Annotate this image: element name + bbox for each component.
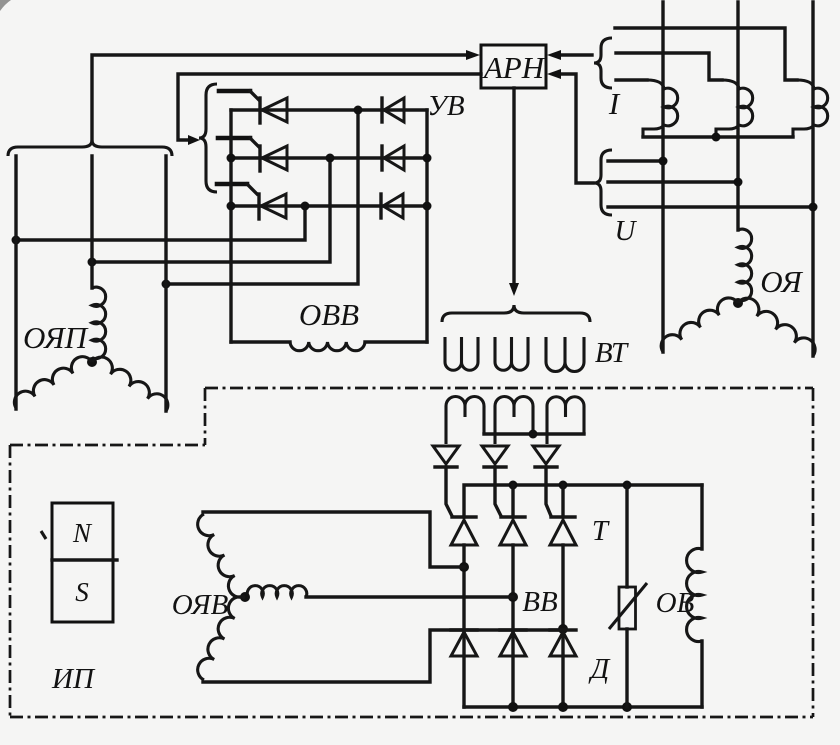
- brace over VT: [442, 305, 590, 322]
- wire OYAV phase 1: [203, 512, 464, 567]
- winding OYAP middle coil: [92, 287, 106, 358]
- diode VD2: [380, 146, 383, 170]
- thyristor T2: [501, 515, 525, 518]
- winding OYAP right arm: [92, 357, 168, 411]
- wire OYAV phase 3: [203, 630, 563, 682]
- wire from OYAP brace peak up and right to APH input: [92, 55, 466, 141]
- wire U line 1: [608, 159, 663, 162]
- winding VT secondary group 2: [495, 397, 533, 445]
- thyristor VS1 gate: [219, 89, 250, 94]
- wire VT1 to T1 gate: [446, 467, 452, 516]
- svg-text:АРН: АРН: [482, 50, 546, 85]
- node U2 on phase 2: [734, 178, 743, 187]
- wire row 3: [231, 204, 427, 207]
- diode VT3: [533, 446, 559, 464]
- svg-text:I: I: [608, 86, 621, 121]
- node bus T3: [559, 481, 568, 490]
- svg-text:S: S: [75, 577, 89, 607]
- wire U line 3: [608, 205, 813, 208]
- winding VT primary group 1: [445, 337, 478, 370]
- arrowhead down toward VT brace: [509, 283, 519, 296]
- diode D3: [550, 628, 576, 631]
- svg-text:U: U: [615, 215, 638, 247]
- arrowhead into APH right lower: [547, 69, 561, 79]
- CT1 winding: [643, 80, 678, 137]
- wire I line 1 to CT3: [615, 28, 797, 80]
- thyristor VS1: [258, 98, 261, 123]
- node leg2 phase: [508, 592, 518, 602]
- node bottom leg3: [558, 702, 568, 712]
- diode VT2: [482, 446, 508, 464]
- winding OYAV middle coil: [247, 586, 307, 597]
- wire staircase tap2 to row2: [92, 158, 330, 262]
- thyristor T1: [452, 515, 476, 518]
- wire leg 1: [462, 545, 465, 707]
- wire VT3 to T3 gate: [546, 467, 551, 516]
- wire row 1: [231, 108, 427, 111]
- dash-dot boundary left: [9, 445, 12, 717]
- winding OYA right arm: [738, 298, 815, 356]
- wire APH down to VT: [512, 88, 515, 283]
- wire VT2 to T2 gate: [495, 467, 501, 516]
- winding VT secondary group 3: [547, 397, 584, 444]
- dash-dot boundary top: [205, 387, 813, 390]
- brace I: [594, 38, 612, 88]
- node staircase row2: [326, 154, 335, 163]
- node bottom leg2: [508, 702, 518, 712]
- thyristor T3: [551, 515, 575, 518]
- wire negative bus: [464, 705, 702, 708]
- wire T3 cathode: [561, 485, 564, 517]
- CT2 winding: [716, 80, 753, 137]
- brace UV gates: [199, 84, 217, 192]
- varistor discharge resistor: [625, 485, 628, 707]
- wire staircase tap3 to row1: [166, 110, 358, 284]
- winding OVV: [290, 342, 365, 351]
- wire U line 2: [608, 180, 738, 183]
- wire leg 3: [561, 545, 564, 707]
- wire OYAP phase line left: [14, 156, 17, 409]
- node tap3 on OYAP line: [162, 280, 171, 289]
- wire leg 2: [511, 545, 514, 707]
- wire positive bus: [464, 485, 702, 517]
- node tap1 on OYAP line: [12, 236, 21, 245]
- wire T2 cathode: [511, 485, 514, 517]
- wire VT secondary star bus: [484, 432, 584, 435]
- node staircase row1: [354, 106, 363, 115]
- wire left column of UV down to OVV: [229, 110, 232, 342]
- node tap2 on OYAP line: [88, 258, 97, 267]
- generator phase line 1: [661, 2, 664, 352]
- node leg1 phase: [459, 562, 469, 572]
- winding OYAV upper arm: [198, 514, 245, 597]
- svg-text:ИП: ИП: [51, 663, 96, 695]
- winding OYA middle coil: [738, 229, 752, 300]
- svg-text:ОВВ: ОВВ: [299, 297, 359, 332]
- winding OYAV lower arm: [198, 597, 245, 680]
- svg-text:ОЯП: ОЯП: [23, 320, 89, 355]
- svg-text:ОЯВ: ОЯВ: [172, 589, 229, 621]
- wire staircase tap1 to row3: [16, 206, 305, 240]
- arrowhead into UV brace: [188, 135, 200, 145]
- node OYA star point: [733, 298, 743, 308]
- magnet N/S box: [52, 503, 113, 622]
- thyristor VS2: [258, 146, 261, 171]
- CT3 winding: [793, 80, 828, 137]
- wire I line 3 to CT1: [616, 78, 647, 81]
- scan corner artifact: [0, 0, 11, 11]
- thyristor VS3: [257, 194, 260, 219]
- wire APH output to UV gate brace: [178, 74, 481, 140]
- winding OYAP left arm: [14, 357, 92, 408]
- svg-text:ОЯ: ОЯ: [760, 264, 803, 299]
- node leg3 phase: [558, 624, 568, 634]
- svg-text:ВВ: ВВ: [522, 586, 558, 618]
- wire OVV loop: [231, 340, 427, 343]
- wire OYAP phase line right: [164, 156, 167, 411]
- diode VT1: [433, 446, 459, 464]
- wire row 2: [231, 156, 427, 159]
- node U1 on phase 1: [659, 157, 668, 166]
- node on left column row2: [227, 154, 236, 163]
- svg-text:N: N: [72, 518, 93, 548]
- node bus T2: [509, 481, 518, 490]
- node staircase row3: [301, 202, 310, 211]
- tick mark: [41, 531, 46, 539]
- dash-dot boundary bottom: [10, 716, 813, 719]
- generator phase line 3: [811, 2, 814, 356]
- node OYAV star: [240, 592, 250, 602]
- diode D2: [500, 628, 526, 631]
- diode VD1: [380, 98, 383, 122]
- dash-dot boundary step vertical: [204, 388, 207, 445]
- node bus varistor: [623, 481, 632, 490]
- arrowhead into APH right top: [547, 50, 561, 60]
- node OYAP star point: [87, 357, 97, 367]
- generator phase line 2: [736, 2, 739, 230]
- wire right column of UV down to OVV: [425, 110, 428, 342]
- node CT2 return: [712, 133, 721, 142]
- arrowhead into APH left input: [466, 50, 480, 60]
- brace U: [594, 150, 612, 215]
- diode D1: [451, 628, 477, 631]
- winding OYA left arm: [661, 298, 738, 352]
- svg-text:Д: Д: [588, 653, 611, 685]
- winding VT primary group 2: [495, 337, 528, 370]
- wire from I brace to APH right input: [561, 53, 592, 56]
- svg-text:ВТ: ВТ: [595, 337, 629, 369]
- wire OYAP phase line middle: [90, 156, 93, 288]
- wire CT return line: [643, 135, 793, 138]
- dash-dot boundary step horizontal: [10, 444, 205, 447]
- thyristor VS2 gate: [218, 136, 250, 141]
- svg-text:УВ: УВ: [427, 90, 465, 122]
- wire from U brace to APH right lower input: [561, 74, 593, 183]
- dash-dot boundary right: [812, 388, 815, 717]
- winding OV field: [700, 485, 703, 707]
- wire OYAV phase 2: [306, 595, 513, 598]
- node right column row3: [423, 202, 432, 211]
- winding VT secondary group 1: [446, 397, 484, 445]
- node VT secondary bus: [529, 430, 538, 439]
- brace over OYAP: [8, 140, 172, 156]
- block APH: [481, 45, 546, 88]
- diode VD3: [379, 194, 382, 218]
- node right column row2: [423, 154, 432, 163]
- wire I line 2 to CT2: [616, 53, 722, 80]
- svg-text:Т: Т: [592, 515, 610, 547]
- winding VT primary group 3: [546, 337, 584, 372]
- node on left column row3: [227, 202, 236, 211]
- node bottom varistor: [622, 702, 632, 712]
- node U3 on phase 3: [809, 203, 818, 212]
- thyristor VS3 gate: [217, 182, 247, 187]
